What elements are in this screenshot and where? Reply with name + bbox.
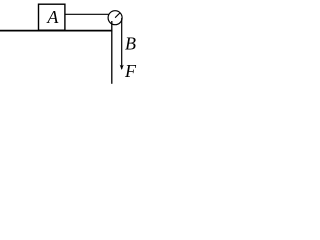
svg-text:B: B: [125, 34, 136, 54]
pulley axle mark: [115, 13, 120, 18]
wire: string from block A to pulley: [65, 13, 109, 15]
force F arrowhead: [120, 65, 124, 70]
table edge: [111, 21, 113, 84]
wire: string hanging from pulley with force arrow: [121, 18, 123, 69]
pulley: [108, 11, 122, 25]
table surface: [0, 30, 112, 32]
svg-text:A: A: [46, 7, 59, 27]
block A: [39, 4, 65, 30]
svg-text:F: F: [124, 61, 137, 81]
